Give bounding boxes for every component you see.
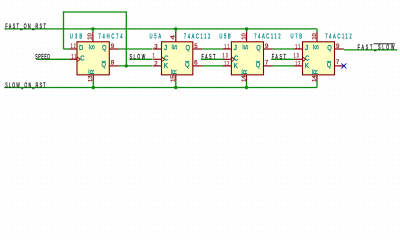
- pin 7 /Q output of U5B: [264, 65, 273, 67]
- svg-text:K: K: [234, 61, 238, 70]
- overline of S: [312, 44, 314, 49]
- svg-text:R: R: [314, 70, 320, 75]
- flip-flop U5B 74AC112 body: [231, 42, 263, 75]
- svg-text:7: 7: [336, 59, 340, 66]
- svg-text:S: S: [173, 45, 179, 50]
- wire U3B bottom pin stub: [92, 81, 94, 88]
- svg-text:9: 9: [336, 43, 340, 50]
- svg-text:K: K: [164, 61, 168, 70]
- svg-text:74AC112: 74AC112: [325, 32, 352, 41]
- junction U5A preset: [174, 27, 177, 30]
- wire feedback right vertical: [125, 11, 127, 66]
- flip-flop U3B 74HC74 body: [77, 42, 109, 75]
- svg-text:Q: Q: [256, 43, 261, 52]
- overline of /Q: [185, 60, 190, 62]
- wire FAST to U5B clock: [201, 58, 224, 60]
- pin 10 preset of U7B: [316, 32, 318, 42]
- wire U5B top pin stub: [246, 29, 248, 33]
- overline of /Q: [102, 60, 107, 62]
- svg-text:6: 6: [194, 60, 198, 67]
- pin 5 Q output of U5A: [193, 48, 202, 50]
- wire U5B /Q to U7B K: [273, 65, 294, 67]
- junction U3B clear: [92, 86, 95, 89]
- svg-text:Q: Q: [102, 43, 107, 52]
- overline of S: [242, 44, 244, 49]
- wire U7B top pin drop: [316, 29, 318, 33]
- svg-text:U3B: U3B: [70, 32, 82, 41]
- pin 11 clock input of U3B: [70, 58, 78, 60]
- svg-text:11: 11: [295, 43, 300, 50]
- pin 13 clock input of U5B: [223, 58, 232, 60]
- wire SLOW_ON_RST bottom rail: [4, 87, 317, 89]
- wire feedback left corner to D pin: [64, 48, 70, 50]
- pin 13 clock input of U7B: [294, 58, 303, 60]
- wire U7B bottom pin rise: [316, 81, 318, 88]
- overline of R: [241, 69, 243, 74]
- svg-text:S: S: [90, 45, 96, 50]
- svg-text:14: 14: [241, 75, 247, 82]
- flip-flop U7B 74AC112 body: [303, 42, 335, 75]
- svg-text:13: 13: [294, 52, 299, 59]
- svg-text:74HC74: 74HC74: [98, 32, 123, 41]
- wire feedback rail U3B /Q to D: [63, 11, 126, 13]
- pin 12 D input of U3B: [70, 48, 78, 50]
- wire U3B /Q to U5A K: [119, 65, 153, 67]
- pin 11 J input of U7B: [294, 48, 303, 50]
- svg-text:74AC112: 74AC112: [184, 32, 211, 41]
- svg-text:R: R: [172, 70, 178, 75]
- svg-text:74AC112: 74AC112: [254, 32, 281, 41]
- svg-text:SLOW: SLOW: [129, 54, 145, 62]
- pin 10 preset of U3B: [92, 32, 94, 42]
- overline of /Q: [256, 60, 261, 62]
- svg-text:FAST_SLOW: FAST_SLOW: [358, 44, 395, 52]
- wire U5A Q to U5B J: [202, 48, 224, 50]
- pin 12 K input of U5B: [223, 65, 232, 67]
- svg-text:8: 8: [111, 60, 115, 67]
- svg-text:10: 10: [241, 33, 247, 40]
- pin 14 clear of U5B: [246, 75, 248, 81]
- wire U5A bottom pin stub: [175, 81, 177, 88]
- pin 9 Q output of U7B: [335, 48, 344, 50]
- svg-text:Q: Q: [327, 43, 332, 52]
- pin 2 K input of U5A: [153, 65, 162, 67]
- pin 3 J input of U5A: [153, 48, 162, 50]
- pin 9 Q output of U3B: [109, 48, 118, 50]
- wire U5A top pin stub: [175, 29, 177, 33]
- svg-text:S: S: [244, 45, 250, 50]
- svg-text:2: 2: [154, 60, 158, 67]
- svg-text:J: J: [164, 43, 168, 52]
- svg-text:R: R: [243, 70, 249, 75]
- svg-text:U7B: U7B: [291, 32, 303, 41]
- wire FAST to U7B clock: [271, 58, 294, 60]
- svg-text:10: 10: [312, 33, 318, 40]
- overline of SLOW in FAST_SLOW: [374, 43, 395, 45]
- overline of R: [88, 69, 90, 74]
- pin 14 clear of U7B: [316, 75, 318, 81]
- svg-text:D: D: [79, 43, 83, 52]
- wire SLOW to U5A clock: [130, 58, 153, 60]
- svg-text:12: 12: [295, 60, 300, 67]
- svg-text:J: J: [234, 43, 238, 52]
- overline of R: [312, 69, 314, 74]
- svg-text:R: R: [90, 70, 96, 75]
- svg-text:9: 9: [265, 43, 269, 50]
- flip-flop U5A 74AC112 body: [162, 42, 193, 75]
- junction U5A clear: [174, 86, 177, 89]
- wire SPEED to U3B clock: [37, 58, 70, 60]
- pin 8 /Q output of U3B: [109, 65, 118, 67]
- svg-text:13: 13: [222, 52, 227, 59]
- svg-text:J: J: [305, 43, 309, 52]
- pin 11 J input of U5B: [223, 48, 232, 50]
- svg-text:5: 5: [194, 43, 198, 50]
- pin 6 /Q output of U5A: [193, 65, 202, 67]
- junction U3B preset: [91, 27, 94, 30]
- wire U5B bottom pin stub: [246, 81, 248, 88]
- pin 15 clear of U5A: [175, 75, 177, 81]
- svg-text:FAST: FAST: [201, 54, 215, 62]
- junction U3B /Q feedback: [125, 64, 128, 67]
- overline of R: [170, 69, 172, 74]
- wire FAST_ON_RST top rail: [5, 28, 318, 30]
- wire U5A /Q to U5B K: [202, 65, 224, 67]
- svg-text:13: 13: [88, 75, 94, 82]
- svg-text:4: 4: [171, 35, 177, 40]
- svg-text:14: 14: [312, 75, 318, 82]
- svg-text:K: K: [305, 61, 309, 70]
- svg-text:7: 7: [265, 60, 269, 67]
- svg-text:11: 11: [71, 54, 76, 61]
- svg-text:C: C: [80, 54, 84, 63]
- pin 9 Q output of U5B: [264, 48, 273, 50]
- no-connect cross on pin 7 of U7B: [341, 63, 346, 68]
- overline of S: [171, 44, 173, 49]
- svg-text:1: 1: [153, 52, 155, 59]
- pin 12 K input of U7B: [294, 65, 303, 67]
- svg-text:U5B: U5B: [219, 32, 230, 41]
- pin 1 clock input of U5A: [153, 58, 162, 60]
- overline of S: [88, 44, 90, 49]
- svg-text:15: 15: [171, 75, 177, 82]
- svg-text:U5A: U5A: [150, 32, 162, 41]
- wire feedback left vertical: [63, 11, 65, 49]
- pin 13 clear of U3B: [92, 75, 94, 81]
- pin 4 preset of U5A: [175, 32, 177, 42]
- svg-text:FAST: FAST: [272, 54, 286, 62]
- junction U5B clear: [245, 86, 248, 89]
- svg-text:Q: Q: [186, 43, 191, 52]
- pin 10 preset of U5B: [246, 32, 248, 42]
- svg-text:S: S: [314, 45, 320, 50]
- svg-text:12: 12: [224, 60, 229, 67]
- wire U5B Q to U7B J: [273, 48, 294, 50]
- svg-text:3: 3: [154, 43, 158, 50]
- svg-text:9: 9: [111, 43, 115, 50]
- svg-text:FAST_ON_RST: FAST_ON_RST: [5, 23, 46, 31]
- overline of /Q: [327, 60, 332, 62]
- wire U3B Q to U5A J: [119, 48, 153, 50]
- svg-text:10: 10: [88, 33, 94, 40]
- svg-text:SPEED: SPEED: [35, 54, 50, 62]
- junction U5B preset: [245, 27, 248, 30]
- pin 7 /Q output of U7B: [335, 65, 344, 67]
- wire FAST_SLOW from U7B Q: [344, 49, 397, 51]
- svg-text:11: 11: [224, 43, 229, 50]
- svg-text:SLOW_ON_RST: SLOW_ON_RST: [5, 82, 46, 90]
- svg-text:12: 12: [71, 43, 76, 50]
- wire U3B top pin stub: [92, 29, 94, 33]
